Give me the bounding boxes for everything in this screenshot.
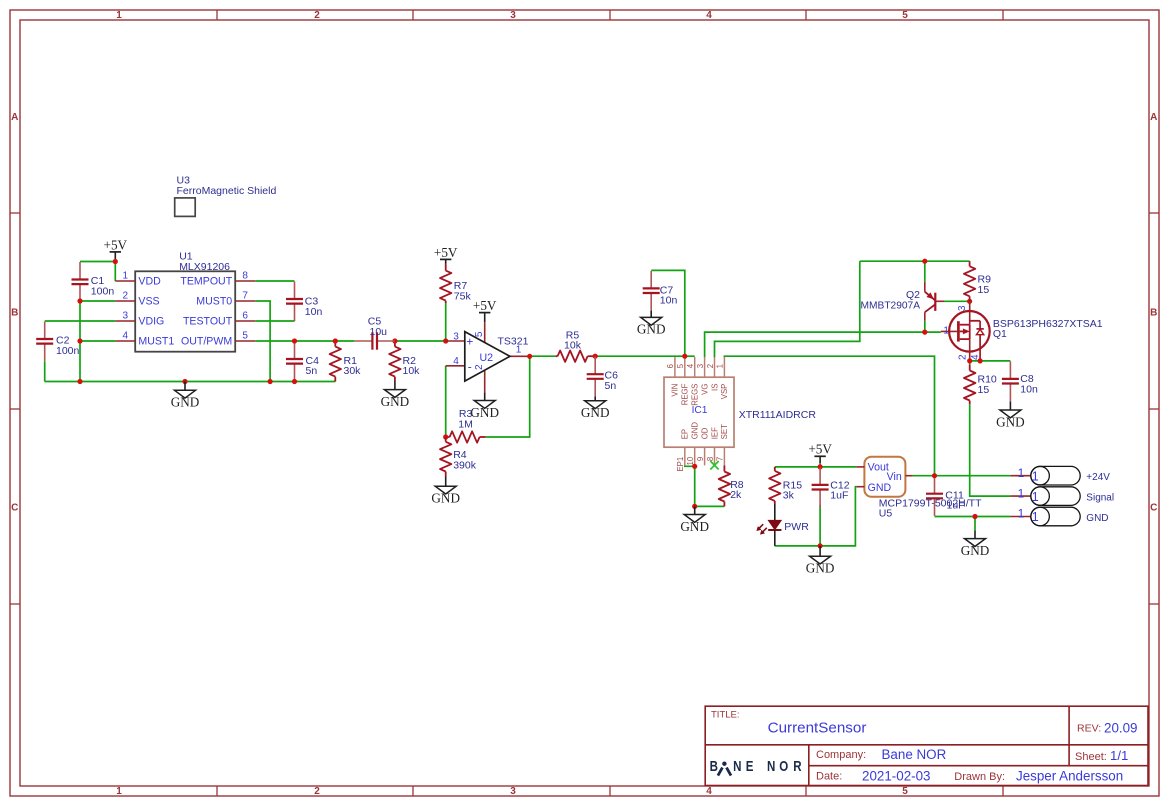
svg-text:Date:: Date: — [816, 771, 842, 783]
svg-text:CurrentSensor: CurrentSensor — [768, 719, 867, 736]
svg-text:2k: 2k — [730, 489, 742, 501]
svg-text:VDIG: VDIG — [138, 316, 164, 328]
svg-text:2: 2 — [706, 364, 715, 368]
svg-text:5: 5 — [474, 331, 485, 337]
svg-text:MLX91206: MLX91206 — [179, 261, 230, 273]
svg-text:A: A — [11, 112, 18, 123]
svg-text:10n: 10n — [1020, 383, 1038, 395]
svg-text:B: B — [11, 308, 18, 319]
svg-text:1: 1 — [716, 364, 725, 368]
svg-text:1: 1 — [116, 10, 122, 21]
svg-text:1: 1 — [123, 271, 129, 282]
svg-text:GND: GND — [680, 519, 709, 534]
svg-text:U5: U5 — [879, 508, 893, 520]
svg-text:5n: 5n — [306, 365, 318, 377]
svg-text:GND: GND — [581, 405, 610, 420]
svg-text:+: + — [466, 335, 473, 349]
svg-text:7: 7 — [242, 291, 248, 302]
svg-text:O: O — [779, 758, 788, 775]
svg-text:9: 9 — [696, 457, 705, 461]
svg-text:100n: 100n — [56, 345, 80, 357]
svg-text:REGF: REGF — [681, 383, 690, 405]
svg-text:Signal: Signal — [1086, 493, 1114, 504]
svg-text:7: 7 — [716, 457, 725, 461]
svg-text:5: 5 — [242, 331, 248, 342]
svg-text:OUT/PWM: OUT/PWM — [181, 336, 232, 348]
svg-text:Bane NOR: Bane NOR — [882, 747, 947, 762]
svg-text:1uF: 1uF — [830, 490, 848, 502]
svg-text:5n: 5n — [605, 380, 617, 392]
svg-text:BSP613PH6327XTSA1: BSP613PH6327XTSA1 — [993, 318, 1103, 330]
svg-text:5: 5 — [902, 786, 908, 797]
svg-text:2: 2 — [957, 354, 968, 360]
svg-text:4: 4 — [123, 331, 129, 342]
svg-text:3: 3 — [123, 311, 129, 322]
svg-text:1: 1 — [116, 786, 122, 797]
svg-text:390k: 390k — [453, 460, 477, 472]
svg-text:TESTOUT: TESTOUT — [183, 316, 233, 328]
svg-text:VDD: VDD — [138, 276, 161, 288]
svg-text:3: 3 — [510, 10, 516, 21]
svg-text:4: 4 — [706, 10, 712, 21]
svg-text:3: 3 — [510, 786, 516, 797]
svg-text:75k: 75k — [454, 290, 472, 302]
svg-text:XTR111AIDRCR: XTR111AIDRCR — [739, 409, 817, 421]
svg-text:IS: IS — [710, 384, 719, 391]
svg-text:Q1: Q1 — [993, 328, 1007, 340]
svg-text:VIN: VIN — [671, 384, 680, 397]
svg-text:GND: GND — [637, 322, 666, 337]
svg-text:1: 1 — [1032, 469, 1039, 483]
svg-text:8: 8 — [706, 457, 715, 461]
svg-text:1: 1 — [1018, 466, 1025, 480]
svg-text:5: 5 — [676, 363, 685, 368]
svg-text:1uF: 1uF — [947, 500, 965, 512]
svg-text:15: 15 — [978, 284, 990, 296]
svg-text:TEMPOUT: TEMPOUT — [180, 276, 232, 288]
svg-text:3: 3 — [957, 305, 968, 311]
svg-text:GND: GND — [431, 491, 460, 506]
svg-text:VSS: VSS — [138, 296, 159, 308]
svg-text:6: 6 — [666, 364, 675, 368]
svg-text:REV:: REV: — [1077, 723, 1101, 735]
svg-text:2: 2 — [123, 291, 129, 302]
svg-text:GND: GND — [691, 422, 700, 440]
svg-text:IC1: IC1 — [692, 405, 708, 416]
svg-text:6: 6 — [242, 311, 248, 322]
svg-text:Sheet:: Sheet: — [1075, 751, 1107, 763]
svg-text:+5V: +5V — [473, 298, 497, 313]
svg-text:3k: 3k — [783, 490, 795, 502]
svg-text:10n: 10n — [660, 295, 678, 307]
svg-text:VSP: VSP — [720, 384, 729, 400]
svg-text:2021-02-03: 2021-02-03 — [862, 768, 931, 783]
svg-text:MMBT2907A: MMBT2907A — [861, 300, 921, 311]
svg-text:Jesper Andersson: Jesper Andersson — [1016, 768, 1123, 783]
svg-text:GND: GND — [996, 414, 1025, 429]
svg-text:+5V: +5V — [434, 245, 458, 260]
svg-text:+5V: +5V — [104, 237, 128, 252]
svg-text:GND: GND — [806, 561, 835, 576]
svg-text:OD: OD — [700, 427, 709, 439]
svg-text:Company:: Company: — [816, 749, 866, 761]
svg-text:EP1: EP1 — [676, 457, 685, 472]
svg-text:Vout: Vout — [868, 462, 889, 474]
svg-text:REGS: REGS — [691, 384, 700, 406]
svg-text:4: 4 — [686, 363, 695, 368]
svg-text:B: B — [710, 758, 718, 775]
svg-text:4: 4 — [453, 356, 459, 367]
svg-text:FerroMagnetic Shield: FerroMagnetic Shield — [177, 185, 277, 197]
svg-text:N: N — [733, 758, 741, 775]
svg-text:1M: 1M — [458, 418, 473, 430]
svg-text:3: 3 — [453, 331, 459, 342]
svg-text:B: B — [1150, 308, 1157, 319]
svg-text:10k: 10k — [403, 365, 421, 377]
svg-text:30k: 30k — [344, 365, 362, 377]
svg-text:10k: 10k — [564, 340, 582, 352]
svg-text:10u: 10u — [370, 326, 388, 338]
svg-text:GND: GND — [470, 405, 499, 420]
svg-text:IEF: IEF — [710, 427, 719, 439]
svg-text:GND: GND — [1086, 513, 1108, 524]
svg-text:U2: U2 — [480, 352, 494, 364]
svg-text:TITLE:: TITLE: — [711, 710, 740, 721]
svg-text:2: 2 — [474, 364, 485, 370]
svg-text:1: 1 — [943, 326, 949, 337]
svg-text:5: 5 — [902, 10, 908, 21]
svg-text:Q2: Q2 — [906, 289, 920, 301]
svg-text:EP: EP — [681, 429, 690, 439]
svg-text:2: 2 — [314, 10, 320, 21]
svg-text:2: 2 — [314, 786, 320, 797]
svg-text:1: 1 — [1018, 507, 1025, 521]
svg-text:1: 1 — [1018, 486, 1025, 500]
svg-text:GND: GND — [381, 394, 410, 409]
svg-text:1/1: 1/1 — [1110, 748, 1128, 763]
svg-text:GND: GND — [171, 395, 200, 410]
svg-text:4: 4 — [706, 786, 712, 797]
svg-text:A: A — [1150, 112, 1157, 123]
svg-text:C: C — [11, 503, 18, 514]
svg-text:1: 1 — [1032, 510, 1039, 524]
svg-text:N: N — [767, 758, 775, 775]
svg-text:100n: 100n — [91, 285, 115, 297]
svg-text:VG: VG — [700, 384, 709, 395]
svg-text:Drawn By:: Drawn By: — [954, 771, 1005, 783]
svg-text:GND: GND — [961, 543, 990, 558]
svg-text:TS321: TS321 — [498, 336, 529, 348]
svg-text:1: 1 — [1032, 490, 1039, 504]
svg-text:8: 8 — [242, 271, 248, 282]
svg-text:-: - — [468, 360, 472, 374]
svg-text:3: 3 — [696, 364, 705, 368]
svg-text:+5V: +5V — [808, 442, 832, 457]
svg-text:MUST0: MUST0 — [196, 296, 232, 308]
svg-text:GND: GND — [868, 482, 892, 494]
svg-text:C: C — [1150, 503, 1157, 514]
svg-text:MUST1: MUST1 — [138, 336, 174, 348]
svg-text:E: E — [746, 758, 754, 775]
svg-text:+24V: +24V — [1086, 472, 1110, 483]
svg-text:20.09: 20.09 — [1104, 720, 1138, 735]
svg-text:R: R — [793, 758, 802, 775]
svg-text:SET: SET — [720, 424, 729, 439]
svg-text:15: 15 — [978, 384, 990, 396]
svg-text:PWR: PWR — [784, 521, 809, 533]
svg-text:10n: 10n — [305, 306, 323, 318]
